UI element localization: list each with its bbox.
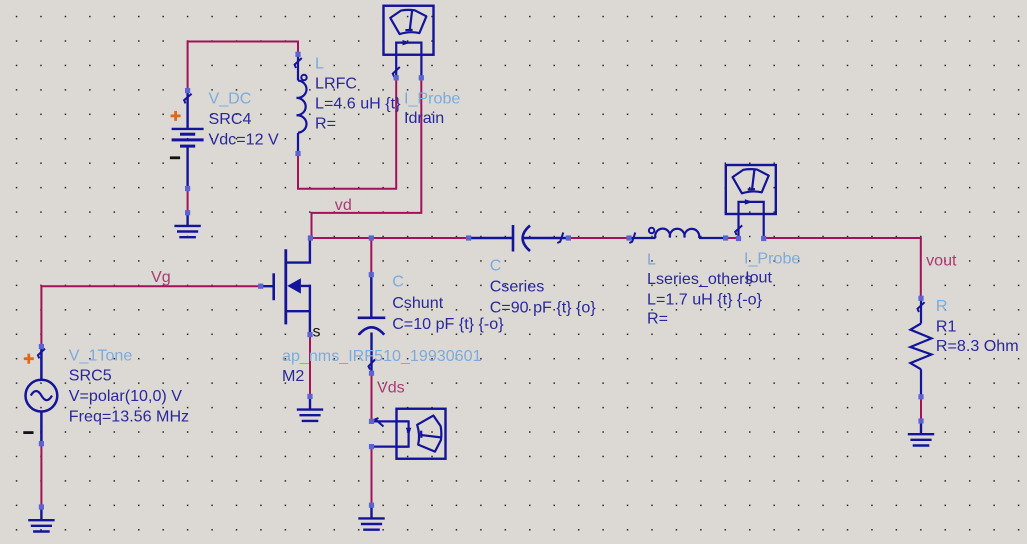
svg-text:Vds: Vds [377,379,405,397]
svg-text:M2: M2 [282,367,304,385]
svg-text:Lseries_others: Lseries_others [647,270,753,288]
svg-text:L=1.7 uH {t} {-o}: L=1.7 uH {t} {-o} [647,290,763,308]
svg-text:Vg: Vg [151,268,171,286]
svg-text:vout: vout [926,252,957,270]
svg-text:vd: vd [335,196,352,214]
svg-text:Vdc=12 V: Vdc=12 V [209,131,280,149]
svg-text:SRC5: SRC5 [69,367,112,385]
svg-text:L: L [647,251,656,269]
svg-text:C: C [490,256,502,274]
svg-text:I_Probe: I_Probe [404,89,460,107]
svg-text:ap_nms_IRF510_19930601: ap_nms_IRF510_19930601 [282,347,482,365]
svg-text:Cshunt: Cshunt [392,294,444,312]
svg-text:V=polar(10,0) V: V=polar(10,0) V [69,387,182,405]
svg-text:LRFC: LRFC [315,75,357,93]
svg-text:I_Probe: I_Probe [744,249,800,267]
svg-text:R1: R1 [936,317,957,335]
svg-text:R=: R= [315,115,336,133]
svg-text:V_DC: V_DC [209,90,252,108]
svg-text:V_1Tone: V_1Tone [69,347,133,365]
svg-text:R=8.3 Ohm: R=8.3 Ohm [936,337,1019,355]
svg-text:Iout: Iout [745,268,772,286]
svg-text:R=: R= [647,310,668,328]
svg-text:C=10 pF {t} {-o}: C=10 pF {t} {-o} [392,315,504,333]
svg-text:L=4.6 uH {t}: L=4.6 uH {t} [315,95,401,113]
svg-text:R: R [936,297,948,315]
svg-text:Cseries: Cseries [490,278,545,296]
svg-text:C: C [392,273,404,291]
svg-text:SRC4: SRC4 [209,110,252,128]
svg-text:C=90 pF {t} {o}: C=90 pF {t} {o} [490,299,597,317]
svg-text:s: s [313,323,321,341]
svg-text:Freq=13.56 MHz: Freq=13.56 MHz [69,408,189,426]
svg-text:L: L [315,55,324,73]
svg-text:Idrain: Idrain [404,109,444,127]
